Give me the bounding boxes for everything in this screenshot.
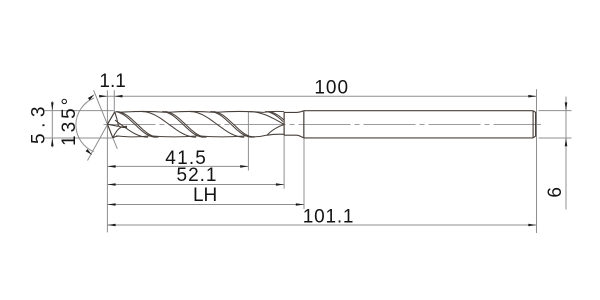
arrow 41.5 left [107, 165, 115, 168]
arrow 5.3 top [51, 102, 54, 110]
arrow 1.1 left [99, 95, 107, 98]
neck top [284, 111, 304, 113]
extension line 6 top [539, 110, 572, 112]
dimension texts [29, 71, 567, 228]
arrow 52.1 left [107, 183, 115, 186]
arrow 5.3 bottom [51, 138, 54, 146]
dimension line LH [107, 204, 304, 206]
extension line shoulder x=114.3 [113, 90, 115, 112]
svg-text:100: 100 [314, 77, 349, 98]
arrow 52.1 right [276, 183, 284, 186]
neck bottom [284, 135, 304, 138]
drill body [107, 111, 535, 138]
svg-text:6: 6 [545, 187, 566, 198]
dimension line 5.3 [51, 101, 53, 148]
arrow 6 bottom [565, 138, 568, 146]
extension line right end x=536.5 [536, 89, 538, 233]
dimension line 41.5 [107, 165, 248, 167]
svg-text:101.1: 101.1 [303, 207, 355, 228]
flute top silhouette [119, 110, 167, 113]
flute runout last margin [265, 112, 283, 122]
shank bottom [304, 137, 533, 139]
svg-text:LH: LH [193, 185, 217, 206]
extension line 5.3 top [45, 110, 114, 112]
flute runout claw edge [267, 125, 284, 136]
svg-text:5.3: 5.3 [29, 101, 50, 144]
flute end vertical [283, 112, 285, 135]
shank start vertical [303, 111, 305, 138]
arrow 101.1 right [528, 224, 536, 227]
svg-text:52.1: 52.1 [177, 165, 218, 186]
extension line left at x=107.4 [106, 90, 108, 232]
arc arrow bottom [86, 149, 93, 155]
centerline axis [104, 123, 542, 125]
svg-text:135°: 135° [59, 95, 80, 146]
flute helix curves [115, 120, 148, 137]
arrow 6 top [565, 102, 568, 110]
extension line LH right [303, 111, 305, 209]
construction line edge 2 extended [88, 111, 115, 160]
arrowheads [51, 94, 567, 226]
extension line 41.5 right [247, 112, 249, 171]
drill tip [107, 112, 127, 138]
angle arc 135 [76, 98, 94, 152]
arrow 1.1 right [114, 95, 122, 98]
svg-text:1.1: 1.1 [99, 71, 125, 92]
dimension line 6 [565, 97, 567, 210]
flute spiral pattern [115, 111, 284, 137]
flute bottom silhouette [116, 135, 150, 138]
extension line 52.1 right [283, 112, 285, 188]
arc arrow top [88, 94, 95, 100]
extension line 5.3 bottom [45, 137, 113, 139]
arrow LH right [296, 203, 304, 206]
extension line 6 bottom [539, 137, 572, 139]
dimension line 52.1 [107, 184, 284, 186]
dimension line 101.1 [107, 224, 536, 226]
arrow LH left [107, 203, 115, 206]
shank top [304, 110, 533, 112]
construction line edge 1 extended [94, 90, 118, 149]
dimension line 1.1 and 100 [100, 95, 537, 97]
shank end [533, 111, 536, 138]
arrow 100 right [528, 95, 536, 98]
arrow 41.5 right [240, 165, 248, 168]
flute runout sweep [249, 112, 284, 125]
arrow 101.1 left [107, 224, 115, 227]
